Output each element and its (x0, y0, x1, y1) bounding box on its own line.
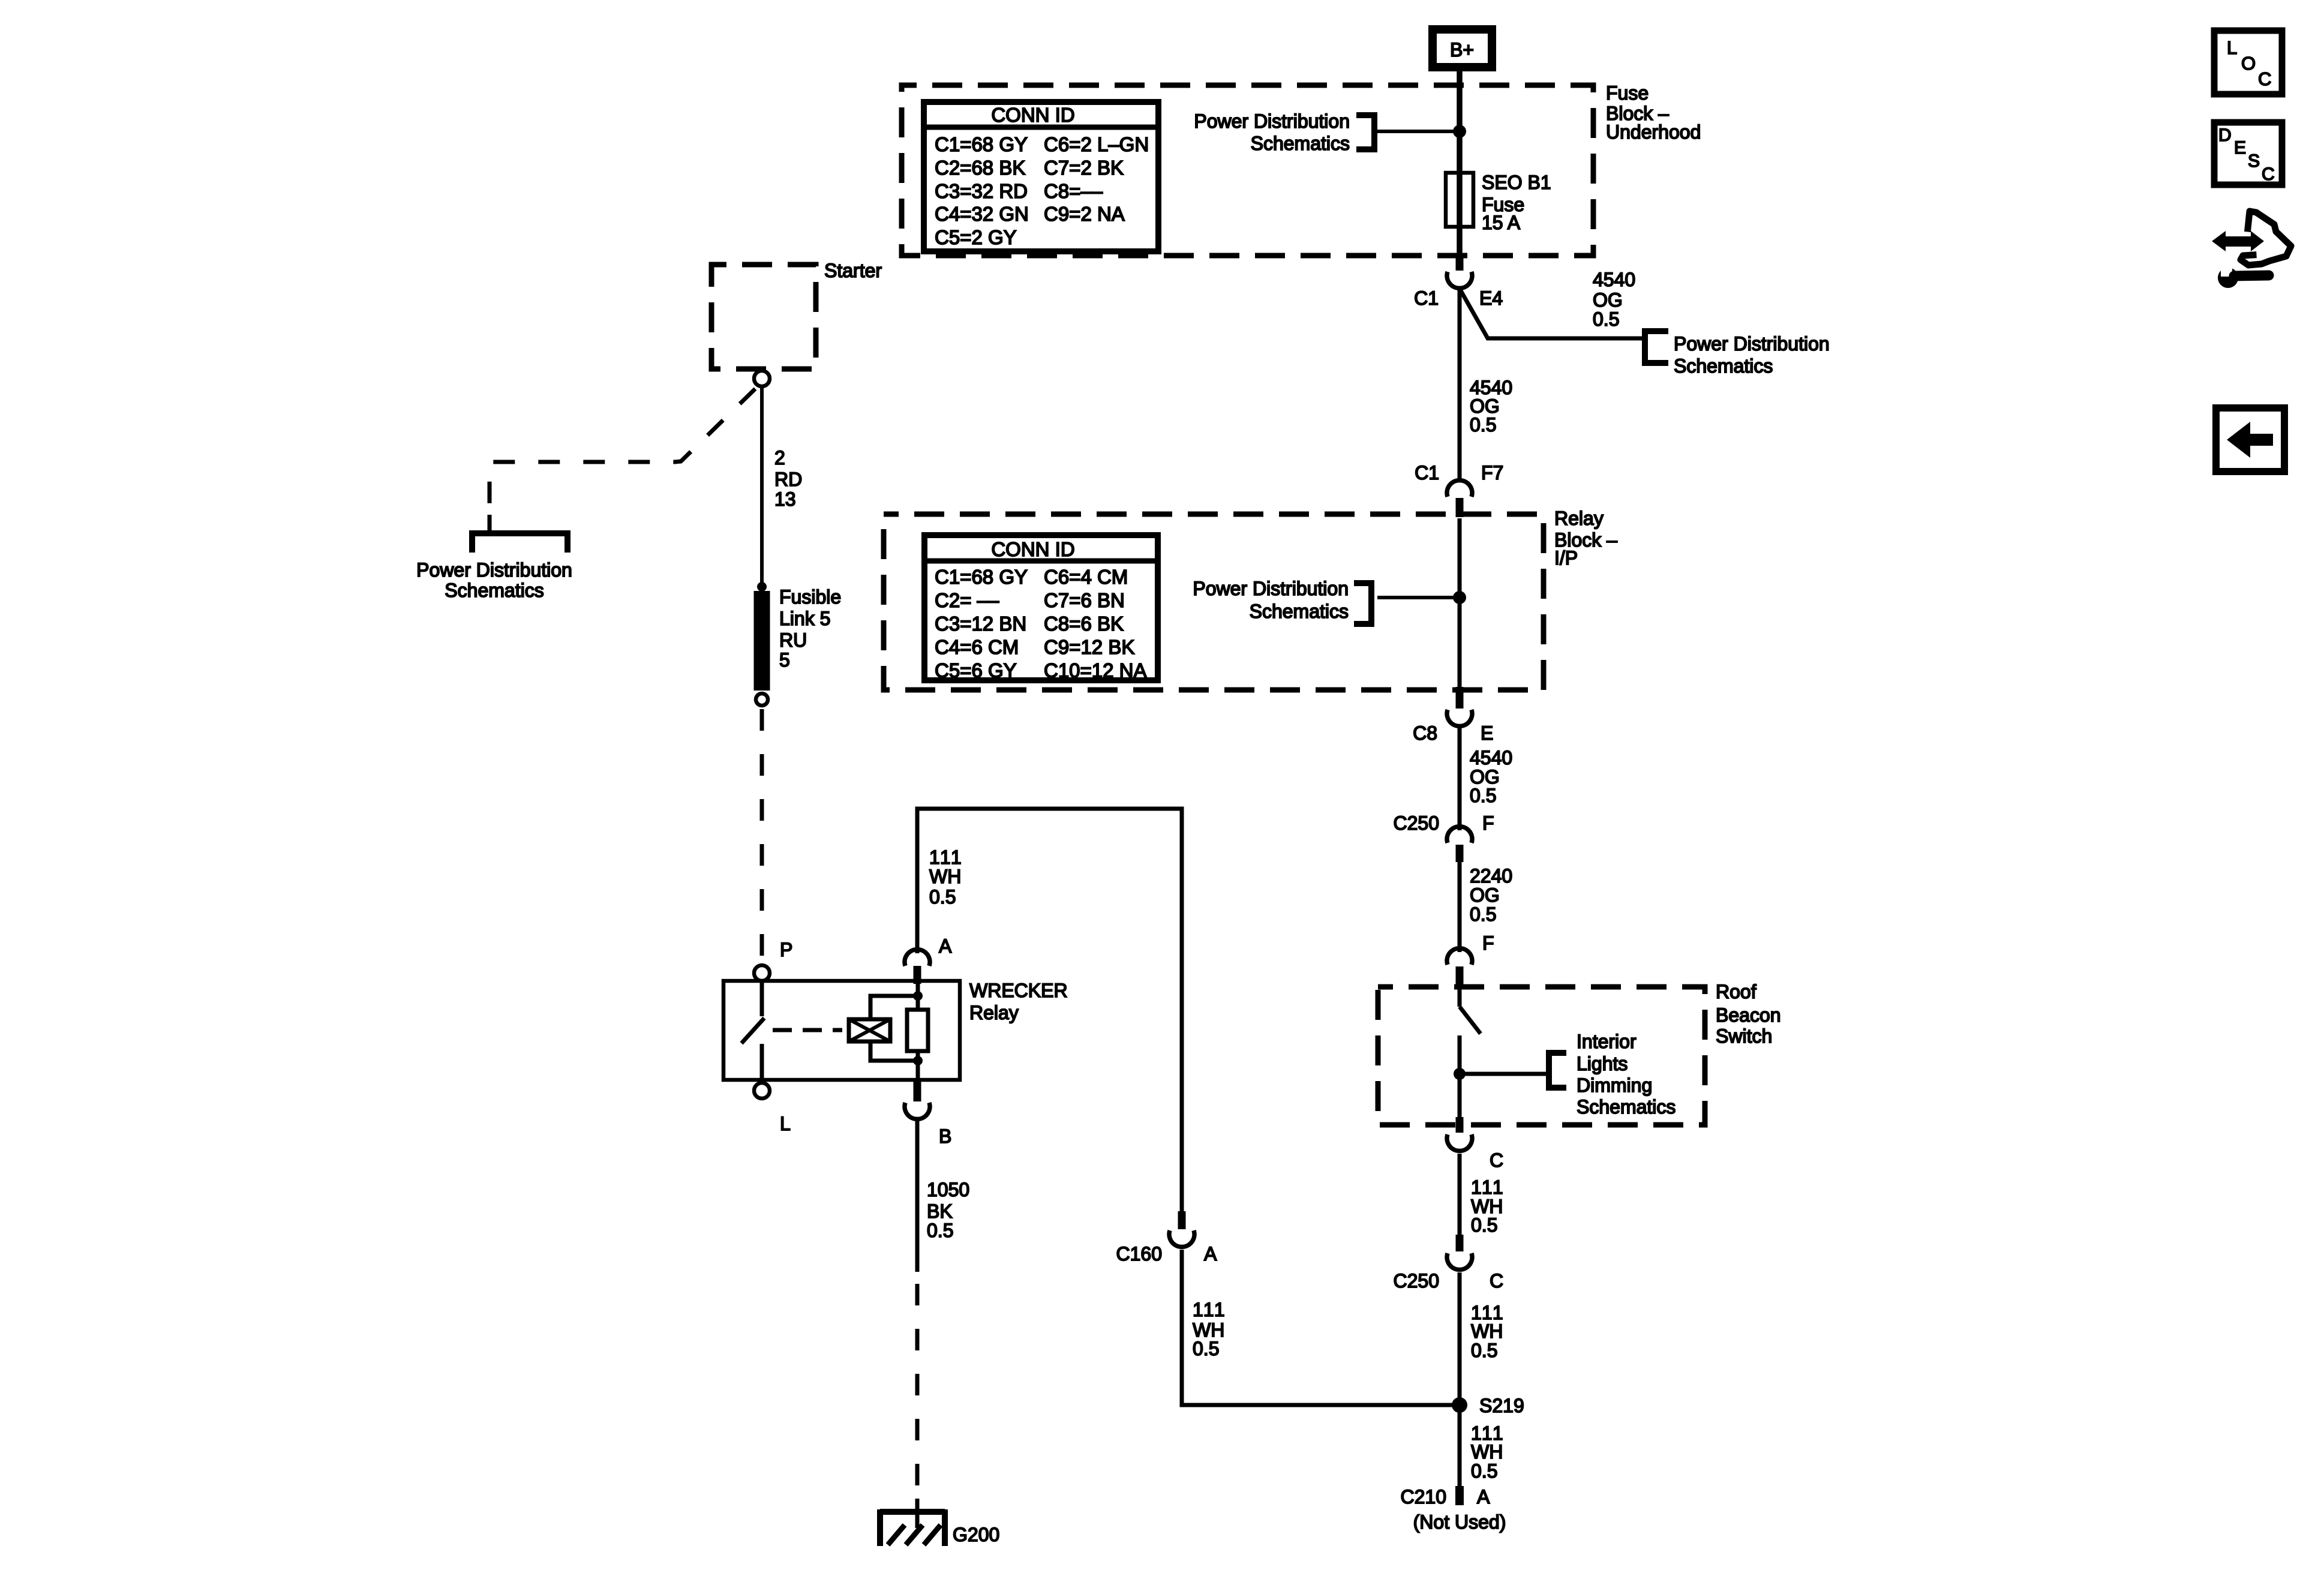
svg-text:C1: C1 (1414, 287, 1439, 309)
svg-text:C8=––: C8=–– (1044, 180, 1103, 202)
svg-text:E: E (2234, 138, 2246, 158)
node junction in relay block (1453, 591, 1466, 604)
svg-text:Dimming: Dimming (1577, 1074, 1652, 1096)
svg-text:S: S (2248, 151, 2260, 171)
svg-text:Fuse: Fuse (1606, 82, 1649, 104)
connector C210 pin A (not used) (1401, 1486, 1506, 1533)
label Power Distribution Schematics (E4 branch) (1674, 333, 1830, 377)
icon LOC button (2214, 31, 2282, 94)
svg-text:C8: C8 (1413, 722, 1437, 744)
wire starter to fusible link (760, 386, 764, 587)
dashed wire fusible link to relay P (760, 709, 764, 963)
icon back arrow button (2216, 408, 2284, 472)
svg-text:C: C (2258, 68, 2271, 89)
svg-text:C5=2 GY: C5=2 GY (935, 226, 1017, 248)
svg-text:Underhood: Underhood (1606, 121, 1701, 143)
CONN ID table (fuse block) (924, 102, 1158, 251)
svg-text:0.5: 0.5 (1470, 414, 1496, 436)
label 2240 OG 0.5 (1470, 865, 1512, 925)
svg-text:SEO B1: SEO B1 (1482, 172, 1551, 193)
terminal P (754, 965, 770, 981)
connector pin B (wrecker relay) (905, 1080, 951, 1147)
svg-text:111: 111 (929, 846, 963, 868)
svg-text:D: D (2218, 125, 2232, 145)
svg-text:CONN ID: CONN ID (991, 538, 1074, 560)
connector C250 pin F (1394, 812, 1494, 862)
svg-text:C1=68 GY: C1=68 GY (935, 133, 1028, 155)
fuse block underhood dashed box (902, 85, 1593, 256)
wire relay A to C160 (917, 809, 1182, 1212)
wire fuse to connector C1/E4 (1457, 227, 1463, 254)
connector pin A (wrecker relay) (905, 935, 952, 984)
svg-text:BK: BK (927, 1200, 953, 1222)
svg-text:O: O (2241, 53, 2256, 74)
svg-text:C: C (1490, 1270, 1503, 1292)
svg-text:I/P: I/P (1554, 547, 1578, 569)
svg-text:Interior: Interior (1577, 1031, 1637, 1052)
svg-text:C3=12 BN: C3=12 BN (935, 613, 1026, 635)
wire to power distribution bracket (1377, 130, 1460, 133)
svg-text:WRECKER: WRECKER (969, 980, 1068, 1001)
svg-text:E: E (1481, 722, 1493, 744)
relay coil (849, 1019, 890, 1041)
starter dashed box (711, 265, 816, 369)
coil connection wires (870, 996, 918, 1061)
svg-text:Schematics: Schematics (1250, 601, 1349, 622)
svg-text:RD: RD (774, 469, 802, 490)
svg-text:B+: B+ (1450, 39, 1474, 61)
connector C160 pin A (1116, 1211, 1218, 1265)
label Power Distribution Schematics (fuse block) (1194, 110, 1350, 154)
wire C8/E to C250/F (1458, 725, 1462, 830)
connector C1 pin E4 (1414, 254, 1503, 309)
wire relay B down (915, 1118, 920, 1272)
connector pin F (roof beacon switch) (1447, 932, 1494, 986)
svg-text:2240: 2240 (1470, 865, 1512, 887)
label Power Distribution Schematics (relay block) (1193, 578, 1349, 622)
svg-text:E4: E4 (1479, 287, 1503, 309)
svg-text:0.5: 0.5 (1471, 1460, 1497, 1482)
svg-text:L: L (780, 1113, 791, 1134)
svg-text:C1=68 GY: C1=68 GY (935, 566, 1028, 588)
roof beacon switch dashed box (1378, 987, 1705, 1125)
svg-text:C5=6 GY: C5=6 GY (935, 659, 1017, 682)
relay actuator dashed link (773, 1028, 842, 1032)
label 1050 BK 0.5 (927, 1179, 969, 1241)
svg-text:Power Distribution: Power Distribution (416, 559, 572, 581)
label Interior Lights Dimming Schematics (1577, 1031, 1676, 1118)
icon DESC button (2214, 122, 2282, 185)
connector C8 pin E (1413, 687, 1493, 744)
wire through relay block (1458, 518, 1462, 689)
label 2 RD 13 (774, 447, 802, 510)
label 4540 OG 0.5 (E4 branch) (1593, 269, 1635, 330)
svg-text:WH: WH (1471, 1320, 1503, 1342)
svg-text:S219: S219 (1479, 1395, 1524, 1416)
svg-text:C7=6 BN: C7=6 BN (1044, 589, 1125, 611)
fusible link 5 (756, 582, 768, 706)
wire to power distribution bracket (relay block) (1377, 596, 1460, 599)
wire S219 to C210 (1458, 1405, 1462, 1487)
label WRECKER Relay (969, 980, 1068, 1023)
connector C250 pin C (1394, 1235, 1504, 1292)
svg-text:G200: G200 (953, 1524, 999, 1545)
wire E4 branch diagonal (1460, 289, 1645, 338)
label Fusible Link 5 RU 5 (779, 586, 841, 671)
svg-text:0.5: 0.5 (1471, 1340, 1497, 1361)
svg-text:F7: F7 (1481, 462, 1503, 484)
svg-text:P: P (780, 939, 792, 960)
connector C1 pin F7 (1415, 462, 1503, 517)
relay resistor (907, 981, 928, 1080)
svg-text:0.5: 0.5 (929, 886, 956, 908)
svg-text:C3=32 RD: C3=32 RD (935, 180, 1028, 202)
label Roof Beacon Switch (1716, 981, 1781, 1047)
label 4540 OG 0.5 (below C8) (1470, 747, 1512, 806)
svg-text:F: F (1482, 812, 1494, 834)
svg-text:(Not Used): (Not Used) (1413, 1511, 1506, 1533)
label 4540 OG 0.5 (main) (1470, 377, 1512, 436)
svg-text:A: A (939, 935, 952, 957)
label 111 WH 0.5 (C160 branch) (1193, 1299, 1226, 1359)
reference bracket (power distribution, relay block) (1354, 583, 1371, 624)
svg-text:0.5: 0.5 (1193, 1338, 1219, 1359)
svg-text:C250: C250 (1394, 812, 1440, 834)
svg-text:C2=68 BK: C2=68 BK (935, 157, 1025, 179)
svg-text:13: 13 (774, 488, 796, 510)
label Fuse Block - Underhood (1606, 82, 1701, 143)
label 111 WH 0.5 (below S219) (1471, 1422, 1505, 1482)
svg-text:2: 2 (774, 447, 785, 469)
splice S219 (1452, 1395, 1524, 1416)
node junction (coil bottom) (913, 1056, 923, 1065)
svg-text:C4=6 CM: C4=6 CM (935, 636, 1019, 658)
reference bracket (power distribution, fuse block) (1356, 115, 1374, 149)
svg-text:C8=6 BK: C8=6 BK (1044, 613, 1124, 635)
reference bracket (interior lights dimming) (1549, 1053, 1566, 1088)
svg-text:4540: 4540 (1470, 747, 1512, 769)
battery feed B+ terminal (1433, 29, 1492, 67)
ground G200 (880, 1499, 945, 1546)
svg-text:0.5: 0.5 (1470, 785, 1496, 806)
wire C250/C to S219 (1458, 1272, 1462, 1405)
wrecker relay box (723, 981, 960, 1080)
svg-text:WH: WH (929, 866, 961, 887)
svg-text:Lights: Lights (1577, 1053, 1628, 1074)
relay switch contacts (741, 981, 764, 1080)
svg-text:Beacon: Beacon (1716, 1004, 1781, 1026)
svg-text:111: 111 (1471, 1176, 1505, 1198)
label 111 WH 0.5 (below C) (1471, 1176, 1505, 1236)
label SEO B1 Fuse 15 A (1482, 172, 1551, 233)
svg-text:Schematics: Schematics (445, 580, 544, 601)
svg-text:Link 5: Link 5 (779, 608, 830, 629)
svg-text:0.5: 0.5 (1593, 308, 1619, 330)
svg-text:C: C (2262, 164, 2275, 184)
wire B+ to fuse (1457, 71, 1463, 175)
svg-text:Schematics: Schematics (1674, 355, 1773, 377)
svg-text:Power Distribution: Power Distribution (1674, 333, 1830, 355)
svg-text:A: A (1477, 1486, 1490, 1508)
svg-text:WH: WH (1471, 1441, 1503, 1463)
svg-text:0.5: 0.5 (1471, 1214, 1497, 1236)
svg-text:C4=32 GN: C4=32 GN (935, 203, 1029, 225)
icon troubleshooting (arrow, panel outline, wrench) (2212, 211, 2291, 288)
svg-text:111: 111 (1193, 1299, 1226, 1320)
label 111 WH 0.5 (relay A branch) (929, 846, 963, 908)
svg-text:OG: OG (1593, 289, 1623, 311)
svg-text:4540: 4540 (1593, 269, 1635, 290)
fuse SEO B1 15A (1446, 173, 1473, 227)
svg-text:5: 5 (779, 649, 790, 671)
svg-text:A: A (1204, 1243, 1217, 1265)
svg-text:Schematics: Schematics (1577, 1096, 1676, 1118)
svg-text:C10=12 NA: C10=12 NA (1044, 659, 1147, 682)
starter terminal (754, 371, 770, 386)
svg-text:C6=2 L–GN: C6=2 L–GN (1044, 133, 1149, 155)
svg-text:Schematics: Schematics (1251, 133, 1350, 154)
svg-text:Relay: Relay (969, 1002, 1019, 1023)
svg-text:1050: 1050 (927, 1179, 969, 1200)
svg-text:C6=4 CM: C6=4 CM (1044, 566, 1128, 588)
label Power Distribution Schematics (starter branch) (416, 559, 572, 601)
svg-text:Fusible: Fusible (779, 586, 841, 608)
reference bracket (power distribution, E4 branch) (1645, 331, 1668, 363)
svg-text:C9=12 BK: C9=12 BK (1044, 636, 1134, 658)
wire C250/F to F (1458, 862, 1462, 952)
CONN ID table (relay block) (924, 535, 1158, 682)
svg-text:Power Distribution: Power Distribution (1193, 578, 1349, 599)
svg-text:Starter: Starter (824, 260, 882, 281)
svg-text:F: F (1482, 932, 1494, 954)
wire stub into bracket (488, 515, 492, 533)
starter switch lever and dashed wire to power distribution (490, 389, 755, 521)
svg-text:B: B (939, 1125, 951, 1147)
svg-text:0.5: 0.5 (1470, 903, 1496, 925)
node junction (roof beacon) (1454, 1068, 1466, 1080)
svg-text:Roof: Roof (1716, 981, 1756, 1002)
svg-text:15 A: 15 A (1482, 212, 1521, 233)
reference bracket (power distribution, starter) (472, 533, 568, 553)
svg-text:RU: RU (779, 629, 807, 651)
dashed wire to ground (915, 1284, 920, 1503)
wire C to C250/C (1458, 1154, 1462, 1236)
svg-text:C: C (1490, 1149, 1503, 1171)
label Relay Block - I/P (1554, 508, 1617, 569)
node junction (coil top) (913, 991, 923, 1001)
svg-text:C1: C1 (1415, 462, 1439, 484)
switch contacts (roof beacon) (1460, 989, 1481, 1121)
svg-text:Power Distribution: Power Distribution (1194, 110, 1350, 132)
svg-text:OG: OG (1470, 884, 1500, 906)
terminal L (754, 1083, 770, 1098)
svg-text:C7=2 BK: C7=2 BK (1044, 157, 1124, 179)
svg-text:Relay: Relay (1554, 508, 1604, 529)
wire C160 to S219 (1182, 1250, 1460, 1405)
wire C1/E4 to C1/F7 (1458, 289, 1462, 481)
svg-text:C2= ––: C2= –– (935, 589, 999, 611)
node junction at B+ feed (1453, 125, 1466, 138)
svg-text:C9=2 NA: C9=2 NA (1044, 203, 1125, 225)
wire to interior lights bracket (1460, 1072, 1549, 1076)
svg-text:L: L (2227, 37, 2237, 58)
relay block I/P dashed box (884, 514, 1544, 690)
connector pin C (below roof beacon switch) (1447, 1117, 1503, 1171)
svg-text:0.5: 0.5 (927, 1220, 953, 1241)
svg-text:C160: C160 (1116, 1243, 1163, 1265)
svg-text:C250: C250 (1394, 1270, 1440, 1292)
svg-text:C210: C210 (1401, 1486, 1447, 1508)
label 111 WH 0.5 (below C250/C) (1471, 1302, 1505, 1361)
svg-text:Switch: Switch (1716, 1025, 1772, 1047)
svg-text:CONN ID: CONN ID (991, 104, 1074, 126)
